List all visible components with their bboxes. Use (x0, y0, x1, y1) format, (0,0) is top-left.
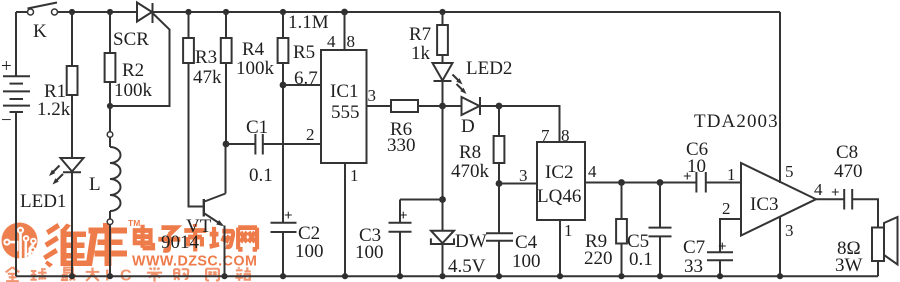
wire zener branch from LED2 node (442, 106, 444, 231)
node R2 top (107, 9, 113, 15)
node pins 6 7 junction (280, 82, 287, 89)
wire R1 top (71, 12, 73, 66)
wire R4 bottom to C1 node (225, 63, 227, 144)
wire IC3 pin 3 to ground (779, 216, 781, 276)
wire IC2 pin 1 to ground (559, 220, 561, 276)
resistor R1 (37, 66, 78, 120)
wire IC3 pin 4 output (816, 198, 844, 200)
svg-text:0.1: 0.1 (629, 249, 653, 270)
wire R2 bottom to gate node (109, 82, 111, 106)
wire D anode (443, 105, 462, 107)
svg-text:1.1M: 1.1M (288, 12, 329, 33)
wire top supply rail left segment (16, 11, 28, 13)
battery B (1, 56, 30, 131)
node C3 tie (439, 196, 446, 203)
wire battery negative to bottom rail (15, 112, 17, 276)
svg-text:R3: R3 (195, 47, 217, 68)
svg-text:1.2k: 1.2k (37, 99, 71, 120)
resistor R4 (221, 38, 275, 79)
node R9 ground (618, 273, 624, 279)
capacitor C3 (355, 200, 443, 264)
op-amp IC1 555 timer (321, 50, 367, 163)
switch K (28, 3, 58, 43)
svg-text:TDA2003: TDA2003 (694, 111, 779, 132)
svg-text:3: 3 (785, 221, 794, 240)
node R4 top (223, 9, 229, 15)
svg-text:47k: 47k (193, 67, 222, 88)
svg-text:4.5V: 4.5V (448, 256, 486, 277)
node C1 junction (223, 141, 230, 148)
node emitter ground (221, 273, 227, 279)
capacitor C5 (627, 183, 672, 271)
node C2 ground (280, 273, 286, 279)
svg-text:100: 100 (355, 242, 384, 263)
wire LED1 to ground (71, 172, 73, 276)
svg-text:1: 1 (350, 166, 359, 185)
wire C2 to ground (282, 232, 284, 276)
svg-text:1: 1 (564, 221, 573, 240)
wire C4 to ground (498, 241, 500, 277)
watermark logo disc (2, 223, 38, 259)
node L ground (107, 273, 113, 279)
svg-text:R7: R7 (409, 24, 431, 45)
wire R5 bottom through pins 6.7 node down to C2 (282, 63, 284, 223)
node R5 top (280, 9, 286, 15)
resistor R6 (387, 100, 418, 156)
watermark char zi (158, 228, 180, 251)
svg-text:K: K (33, 21, 47, 42)
svg-text:C4: C4 (515, 232, 538, 253)
svg-text:IC1: IC1 (330, 81, 359, 102)
svg-text:6.7: 6.7 (294, 68, 318, 89)
watermark char wang (238, 228, 257, 250)
svg-text:4: 4 (327, 32, 336, 51)
wire R8 node to IC2 pins 7 8 (499, 106, 560, 142)
wire right drop to IC3 pin 5 (779, 12, 781, 183)
svg-text:33: 33 (684, 256, 703, 277)
svg-text:LED1: LED1 (20, 191, 66, 212)
node IC1 pin1 ground (342, 273, 348, 279)
node R9 top (618, 179, 625, 186)
svg-text:WWW.DZSC.COM: WWW.DZSC.COM (132, 254, 257, 270)
node IC2 pin3 junction (496, 180, 503, 187)
svg-text:−: − (1, 110, 12, 131)
watermark slogan da (86, 268, 100, 281)
wire left edge battery branch (15, 12, 17, 76)
svg-text:+: + (1, 56, 12, 77)
svg-text:D: D (461, 116, 475, 137)
svg-text:1k: 1k (411, 43, 431, 64)
capacitor C4 (486, 184, 541, 273)
speaker 8ohm 3W (835, 217, 898, 276)
resistor R7 (409, 24, 448, 64)
wire IC1 pin 1 to ground (344, 163, 346, 276)
node C5 top (657, 179, 664, 186)
node LED1 ground (69, 273, 75, 279)
watermark slogan zhan (235, 267, 250, 281)
wire C5 to ground (659, 236, 661, 276)
node IC2 pin1 ground (557, 273, 563, 279)
wire R7 to LED2 (442, 55, 444, 63)
wire top supply rail middle segment (58, 11, 138, 13)
svg-text:C: C (120, 268, 132, 282)
wire R9 to ground (621, 244, 623, 277)
LED LED2 (433, 58, 513, 96)
wire emitter to ground (224, 226, 226, 277)
capacitor C7 (683, 237, 733, 277)
node R8 top (496, 103, 503, 110)
watermark char shi (184, 224, 206, 252)
wire C1 to IC1 pin 2 (263, 143, 321, 145)
capacitor C8 (831, 142, 863, 210)
svg-text:C7: C7 (683, 237, 705, 258)
wire R8 bottom to pin3 node (498, 163, 500, 184)
wire R3 to base (189, 63, 203, 207)
wire C1 left (226, 143, 255, 145)
node L bottom terminal (107, 219, 113, 225)
svg-text:L: L (89, 174, 101, 195)
op-amp IC3 TDA2003 (694, 111, 816, 236)
node IC1 supply (341, 9, 348, 16)
resistor R8 (451, 136, 504, 182)
svg-text:470: 470 (834, 161, 863, 182)
svg-text:100: 100 (295, 241, 324, 262)
watermark slogan zui (61, 268, 76, 281)
watermark slogan wang2 (206, 269, 219, 281)
node L top terminal (107, 132, 113, 138)
wire R8 top (498, 106, 500, 136)
node LED2 D junction (439, 103, 446, 110)
resistor R3 (183, 38, 222, 88)
svg-text:100k: 100k (114, 80, 153, 101)
wire C8 to speaker (852, 199, 878, 227)
wire R4 top (225, 12, 227, 38)
watermark char ku (86, 223, 128, 266)
capacitor C2 (271, 208, 324, 262)
svg-text:+: + (284, 208, 293, 224)
svg-text:555: 555 (331, 102, 360, 123)
inductor L (89, 137, 121, 219)
svg-text:2: 2 (306, 125, 315, 144)
wire IC1 pins 4 8 (344, 12, 346, 50)
wire L to ground (109, 225, 111, 277)
svg-text:LED2: LED2 (466, 58, 512, 79)
wire IC3 pin 2 to C7 (720, 219, 741, 252)
svg-text:9014: 9014 (161, 232, 200, 253)
svg-text:3W: 3W (835, 255, 863, 276)
wire DW to ground (442, 244, 444, 277)
wire R7 top (442, 12, 444, 25)
wire LED2 to node (442, 81, 444, 106)
wire R1 to LED1 (71, 95, 73, 158)
svg-text:220: 220 (584, 248, 613, 269)
wire pins 6 7 to IC1 (283, 84, 321, 86)
svg-text:R4: R4 (242, 39, 265, 60)
wire C6 to IC3 pin 1 (706, 182, 741, 184)
wire top supply rail right segment (153, 11, 781, 13)
svg-text:1: 1 (727, 165, 736, 184)
svg-text:100k: 100k (236, 58, 275, 79)
svg-text:8: 8 (347, 32, 356, 51)
svg-text:R8: R8 (459, 142, 481, 163)
wire R3 top (188, 12, 190, 38)
resistor R2 (105, 53, 153, 101)
op-amp IC2 LQ46 (537, 142, 585, 220)
svg-text:+: + (718, 239, 727, 255)
wire C3 to ground (399, 232, 401, 276)
wire R5 top (282, 12, 284, 38)
svg-text:10: 10 (687, 156, 706, 177)
svg-text:TM: TM (128, 218, 140, 228)
wire IC1 pin 3 to R6 (367, 105, 392, 107)
svg-text:0.1: 0.1 (249, 165, 273, 186)
wire R6 to LED2 node (418, 105, 443, 107)
svg-text:+: + (831, 185, 840, 201)
watermark slogan cai (147, 267, 162, 281)
node C4 ground (496, 273, 502, 279)
wire IC2 pin 3 (499, 183, 537, 185)
node DW ground (439, 273, 445, 279)
wire bottom ground rail (16, 275, 878, 277)
svg-text:R5: R5 (293, 42, 315, 63)
zener diode DW (431, 231, 487, 277)
wire R9 top (621, 183, 623, 220)
svg-text:3: 3 (368, 86, 377, 105)
svg-text:DW: DW (455, 231, 487, 252)
transistor VT 9014 (161, 194, 226, 254)
node C3 ground (397, 273, 403, 279)
svg-text:IC3: IC3 (750, 194, 779, 215)
svg-text:5: 5 (785, 162, 794, 181)
capacitor C6 (683, 139, 708, 193)
svg-text:4: 4 (588, 162, 597, 181)
svg-text:C1: C1 (246, 117, 268, 138)
node R3 top (185, 9, 191, 15)
resistor R9 (584, 219, 627, 269)
node R7 top (439, 9, 445, 15)
svg-text:100: 100 (512, 251, 541, 272)
capacitor C1 (246, 117, 273, 186)
svg-text:3: 3 (519, 166, 528, 185)
wire speaker to ground (877, 261, 879, 276)
resistor R5 (278, 12, 329, 63)
svg-text:SCR: SCR (113, 29, 149, 50)
wire collector up to C1 node (225, 144, 227, 194)
node SCR gate junction (107, 103, 113, 109)
svg-text:470k: 470k (451, 161, 490, 182)
wire R2 top (109, 12, 111, 53)
thyristor SCR (110, 3, 170, 107)
watermark logo circuit tree (10, 234, 33, 258)
svg-text:IC2: IC2 (545, 162, 574, 183)
svg-text:4: 4 (814, 180, 823, 199)
wire D cathode to R8 node (480, 105, 499, 107)
node C5 ground (657, 273, 663, 279)
svg-text:+: + (399, 208, 408, 224)
svg-text:LQ46: LQ46 (537, 186, 581, 207)
watermark slogan quan (6, 267, 20, 281)
watermark char chang (210, 227, 233, 247)
svg-text:2: 2 (722, 199, 731, 218)
wire gate node to inductor (109, 106, 111, 132)
watermark char wei (43, 223, 87, 268)
svg-text:C8: C8 (836, 142, 858, 163)
watermark slogan gou (174, 269, 188, 280)
node IC3 pin3 ground (777, 273, 783, 279)
diode D (461, 97, 480, 137)
node R1 top (69, 9, 75, 15)
svg-text:330: 330 (387, 135, 416, 156)
svg-text:R2: R2 (122, 60, 144, 81)
node C7 ground (717, 273, 723, 279)
wire IC2 pin 4 to C6 (585, 182, 696, 184)
watermark char dian (135, 225, 153, 248)
wire C7 to ground (719, 260, 721, 276)
LED LED1 (20, 158, 84, 212)
watermark slogan qiu (30, 268, 46, 280)
